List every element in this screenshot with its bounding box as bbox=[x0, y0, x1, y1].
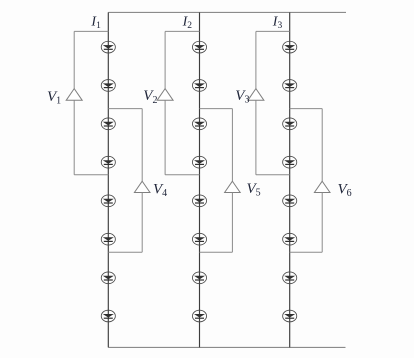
source V4 triangle bbox=[134, 181, 150, 192]
LED D27 bbox=[192, 272, 206, 284]
wire bottom return rail bbox=[108, 346, 345, 348]
wire V1 branch left vertical upper bbox=[73, 31, 75, 88]
LED D28 bbox=[192, 310, 206, 322]
wire V2 branch bottom segment (back to string 2) bbox=[165, 174, 199, 176]
wire V4 branch right vertical upper bbox=[141, 109, 143, 182]
LED D34 bbox=[283, 156, 297, 168]
LED D35 bbox=[283, 195, 297, 207]
LED D33 bbox=[283, 118, 297, 130]
label I1 (string current) bbox=[90, 14, 101, 31]
wire V3 branch left vertical lower bbox=[255, 100, 257, 175]
label V4 bbox=[153, 181, 167, 199]
source V1 triangle bbox=[66, 89, 82, 101]
source V3 triangle bbox=[248, 89, 264, 101]
LED D25 bbox=[192, 195, 206, 207]
source V5 triangle bbox=[225, 181, 241, 192]
wire V4 branch right vertical lower bbox=[141, 193, 143, 253]
LED D24 bbox=[192, 156, 206, 168]
wire V2 branch top segment (string 2 to left) bbox=[165, 30, 199, 32]
label V5 bbox=[247, 181, 261, 199]
wire V4 branch bottom segment (back to string 1) bbox=[108, 251, 142, 253]
label I3 (string current) bbox=[272, 14, 283, 31]
LED D23 bbox=[192, 118, 206, 130]
wire V5 branch right vertical lower bbox=[231, 193, 233, 253]
wire V1 branch bottom segment (back to string 1) bbox=[74, 174, 108, 176]
LED D15 bbox=[101, 195, 115, 207]
label V3 bbox=[235, 88, 249, 106]
wire V5 branch right vertical upper bbox=[231, 109, 233, 182]
wire V3 branch bottom segment (back to string 3) bbox=[256, 174, 290, 176]
wire V5 branch bottom segment (back to string 2) bbox=[200, 251, 233, 253]
source V2 triangle bbox=[157, 89, 173, 101]
wire V6 branch right vertical upper bbox=[321, 109, 323, 182]
LED D21 bbox=[192, 41, 206, 53]
wire V6 branch bottom segment (back to string 3) bbox=[290, 251, 323, 253]
LED D26 bbox=[192, 233, 206, 245]
wire LED string 2 main vertical (node I2 top to bottom rail) bbox=[199, 12, 201, 347]
LED D18 bbox=[101, 310, 115, 322]
LED D38 bbox=[283, 310, 297, 322]
source V6 triangle bbox=[314, 181, 330, 192]
LED D16 bbox=[101, 233, 115, 245]
wire V6 branch top segment (string 3 to right) bbox=[290, 108, 323, 110]
label V2 bbox=[143, 88, 157, 106]
wire V5 branch top segment (string 2 to right) bbox=[200, 108, 233, 110]
LED D32 bbox=[283, 80, 297, 92]
LED D17 bbox=[101, 272, 115, 284]
wire V4 branch top segment (string 1 to right) bbox=[108, 108, 142, 110]
wire V2 branch left vertical lower bbox=[164, 100, 166, 175]
wire V2 branch left vertical upper bbox=[164, 31, 166, 88]
LED D36 bbox=[283, 233, 297, 245]
wire top supply rail bbox=[108, 11, 346, 13]
LED D31 bbox=[283, 41, 297, 53]
LED D12 bbox=[101, 80, 115, 92]
wire V1 branch left vertical lower bbox=[73, 100, 75, 175]
wire V6 branch right vertical lower bbox=[321, 193, 323, 253]
LED D37 bbox=[283, 272, 297, 284]
wire V3 branch left vertical upper bbox=[255, 31, 257, 88]
label V6 bbox=[338, 181, 352, 199]
LED D11 bbox=[101, 41, 115, 53]
wire V1 branch top segment (string 1 to left) bbox=[74, 30, 108, 32]
label I2 (string current) bbox=[182, 14, 193, 31]
wire LED string 3 main vertical (node I3 top to bottom rail) bbox=[289, 12, 291, 347]
LED D13 bbox=[101, 118, 115, 130]
wire V3 branch top segment (string 3 to left) bbox=[256, 30, 290, 32]
wire LED string 1 main vertical (node I1 top to bottom rail) bbox=[107, 12, 109, 347]
LED D22 bbox=[192, 80, 206, 92]
LED D14 bbox=[101, 156, 115, 168]
label V1 bbox=[47, 89, 61, 107]
